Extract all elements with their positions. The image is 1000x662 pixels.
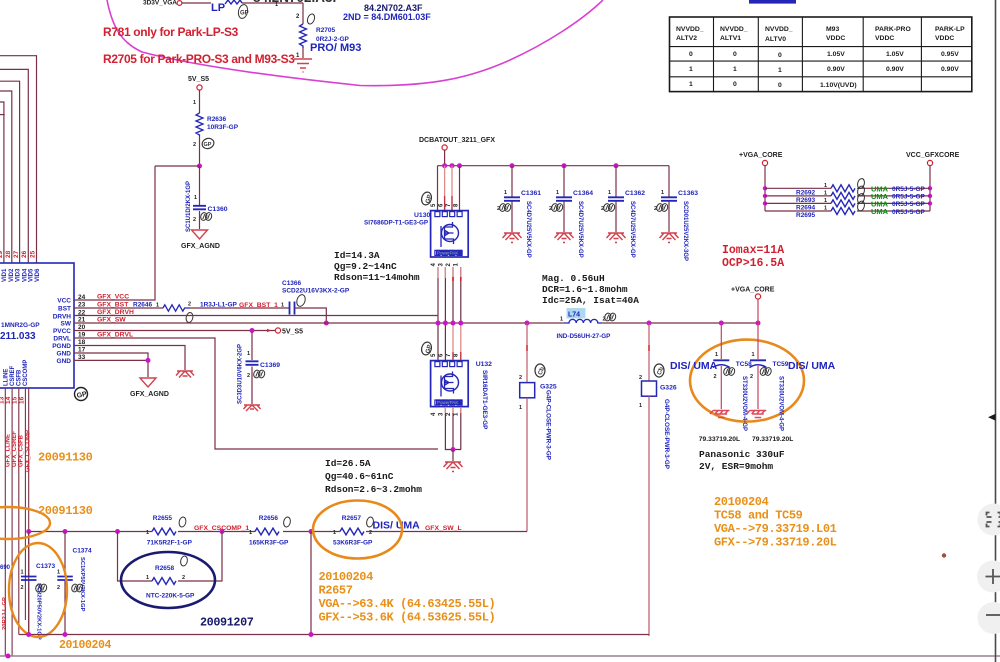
wire VID5: [0, 69, 28, 263]
svg-text:VID6: VID6: [35, 268, 41, 282]
svg-text:G326: G326: [660, 385, 677, 392]
svg-text:2: 2: [519, 375, 522, 381]
svg-text:1: 1: [194, 195, 197, 201]
svg-text:1: 1: [824, 183, 827, 189]
svg-text:SI7686DP-T1-GE3-GP: SI7686DP-T1-GE3-GP: [364, 220, 428, 227]
svg-text:C1366: C1366: [282, 280, 302, 287]
capacitor C1366: [190, 280, 350, 326]
svg-text:DIS/ UMA: DIS/ UMA: [373, 520, 421, 532]
svg-text:VID1: VID1: [2, 268, 8, 282]
svg-text:R2646: R2646: [133, 302, 153, 309]
svg-text:1: 1: [824, 191, 827, 197]
svg-text:2V, ESR=9mohm: 2V, ESR=9mohm: [699, 461, 773, 472]
svg-text:GFX_LLINE: GFX_LLINE: [6, 434, 12, 467]
svg-text:G4P-CLOSE-PWR-3-GP: G4P-CLOSE-PWR-3-GP: [663, 399, 670, 469]
svg-text:IND-D56UH-27-GP: IND-D56UH-27-GP: [557, 333, 611, 340]
svg-text:2: 2: [750, 374, 753, 380]
svg-text:PARK-LP: PARK-LP: [935, 26, 965, 33]
wires bus to U130 drain pins: [438, 166, 460, 210]
wire GFX_SW (pin21): [74, 317, 564, 324]
svg-text:1: 1: [824, 198, 827, 204]
svg-text:R2657: R2657: [319, 584, 353, 598]
svg-text:NVVDD_: NVVDD_: [720, 26, 748, 33]
capacitor TC58: [699, 323, 752, 443]
svg-text:2: 2: [57, 585, 60, 591]
svg-text:GFX_CSFB: GFX_CSFB: [19, 434, 25, 467]
svg-text:VDDC: VDDC: [935, 35, 954, 42]
wire VGA_CORE rail: [602, 321, 761, 326]
wire DCBAT bus: [438, 163, 670, 168]
svg-text:R781 only for Park-LP-S3: R781 only for Park-LP-S3: [103, 25, 239, 39]
svg-text:GFX_CSREF: GFX_CSREF: [12, 431, 18, 467]
note R781: [103, 25, 239, 39]
ground C1364: [555, 233, 574, 243]
svg-text:Rdson=11~14mohm: Rdson=11~14mohm: [334, 272, 420, 283]
svg-text:Qg=40.6~61nC: Qg=40.6~61nC: [325, 471, 394, 482]
note orange 20100204 TC: [714, 495, 837, 550]
svg-text:GP: GP: [240, 11, 249, 17]
svg-text:M93: M93: [826, 26, 839, 33]
svg-text:20091130: 20091130: [38, 504, 93, 518]
svg-text:2: 2: [21, 585, 24, 591]
mosfet U132: [420, 341, 492, 429]
svg-text:1: 1: [661, 190, 664, 196]
wire GFX_CSCOMP/GFX_SW_L line: [26, 529, 527, 534]
wire VID4: [0, 81, 20, 263]
svg-text:2: 2: [182, 575, 185, 581]
resistor R2655: [146, 515, 249, 547]
svg-text:211.033: 211.033: [0, 331, 36, 342]
svg-text:DIS/ UMA: DIS/ UMA: [788, 360, 836, 372]
IC U (PWM controller) box: [0, 263, 74, 388]
svg-text:C1360: C1360: [208, 206, 228, 213]
svg-text:GP: GP: [204, 142, 212, 148]
ground PGND: [176, 371, 194, 378]
svg-text:2: 2: [188, 302, 191, 308]
svg-text:GFX_AGND: GFX_AGND: [130, 391, 169, 398]
svg-text:1: 1: [57, 570, 60, 576]
capacitor C1374: [57, 532, 92, 635]
svg-text:C1369: C1369: [260, 362, 280, 369]
note orange R2657 block: [319, 570, 496, 625]
svg-text:LP: LP: [211, 2, 225, 14]
svg-text:BST: BST: [58, 306, 71, 313]
svg-text:79.33719.20L: 79.33719.20L: [699, 436, 740, 443]
svg-text:20100204: 20100204: [714, 495, 769, 509]
svg-text:U130: U130: [414, 212, 430, 219]
ground C1361: [503, 233, 522, 243]
small mark: [942, 553, 946, 557]
svg-text:Id=26.5A: Id=26.5A: [325, 458, 371, 469]
resistor R2646: [133, 302, 278, 324]
svg-text:Iomax=11A: Iomax=11A: [722, 244, 784, 257]
svg-text:NVVDD_: NVVDD_: [676, 26, 704, 33]
svg-text:2: 2: [639, 375, 642, 381]
svg-text:1: 1: [333, 530, 336, 536]
jumper G326: [639, 323, 677, 636]
svg-text:CSCOMP: CSCOMP: [23, 360, 29, 386]
svg-text:DIS/ UMA: DIS/ UMA: [670, 360, 718, 372]
svg-text:VID5: VID5: [29, 268, 35, 282]
svg-text:C1362: C1362: [625, 190, 645, 197]
resistor R2656: [249, 515, 291, 547]
note R2705: [103, 52, 295, 66]
ground GFX_AGND (C1360): [181, 230, 220, 250]
svg-text:VCC: VCC: [57, 298, 71, 305]
svg-text:NVVDD_: NVVDD_: [765, 26, 793, 33]
svg-text:1: 1: [689, 66, 693, 73]
svg-text:UMA: UMA: [871, 207, 889, 216]
note inductor spec: [542, 273, 639, 306]
svg-text:0.90V: 0.90V: [827, 66, 845, 73]
svg-text:DRVH: DRVH: [53, 314, 72, 321]
svg-text:1: 1: [146, 575, 149, 581]
resistor R2692: [765, 178, 930, 197]
svg-text:SIR16DAT1-GE3-GP: SIR16DAT1-GE3-GP: [481, 370, 488, 429]
svg-text:84.2N702.A3F: 84.2N702.A3F: [253, 0, 341, 5]
svg-text:L74: L74: [568, 312, 580, 319]
svg-text:1: 1: [156, 303, 159, 309]
svg-text:PowerPAK: PowerPAK: [437, 250, 458, 255]
svg-text:1: 1: [556, 190, 559, 196]
svg-text:20091207: 20091207: [200, 616, 254, 630]
wires U130 source/gate to SW: [438, 267, 461, 323]
svg-text:GFX_BST: GFX_BST: [97, 302, 129, 309]
ground C1363: [660, 233, 679, 243]
resistor R2705: [296, 3, 361, 59]
resistor R2695: [765, 200, 930, 219]
svg-text:Idc=25A, Isat=40A: Idc=25A, Isat=40A: [542, 295, 639, 306]
svg-text:R2656: R2656: [259, 515, 279, 522]
svg-text:DCR=1.6~1.8mohm: DCR=1.6~1.8mohm: [542, 284, 628, 295]
svg-text:26: 26: [21, 250, 28, 258]
svg-text:PGND: PGND: [52, 343, 71, 350]
blue bar top: [749, 0, 796, 4]
note 20091207: [200, 616, 254, 630]
svg-text:C1364: C1364: [573, 190, 593, 197]
svg-text:1: 1: [21, 570, 24, 576]
svg-text:1.10V(UVD): 1.10V(UVD): [820, 82, 857, 89]
highlight ellipse (selection): [107, 0, 603, 86]
resistor R2694: [765, 193, 930, 212]
svg-text:PVCC: PVCC: [53, 328, 71, 335]
page border line right: [988, 0, 996, 662]
svg-text:C1363: C1363: [678, 190, 698, 197]
svg-text:GFX_DRVH: GFX_DRVH: [97, 309, 134, 316]
svg-text:DCBATOUT_3211_GFX: DCBATOUT_3211_GFX: [419, 137, 495, 144]
wire to bottom: [310, 532, 312, 635]
svg-text:1: 1: [146, 530, 149, 536]
svg-text:GFX_DRVL: GFX_DRVL: [97, 332, 133, 339]
svg-text:2: 2: [193, 217, 196, 223]
svg-text:R2705: R2705: [316, 27, 336, 34]
capacitor C1369: [238, 332, 281, 404]
capacitor C1363: [654, 166, 698, 261]
svg-text:+VGA_CORE: +VGA_CORE: [739, 152, 783, 159]
svg-text:1.05V: 1.05V: [886, 51, 904, 58]
svg-text:20100204: 20100204: [319, 570, 374, 584]
svg-text:TC58 and TC59: TC58 and TC59: [714, 509, 803, 523]
note 20091130 (2): [38, 504, 93, 518]
svg-text:GFX_VCC: GFX_VCC: [97, 294, 129, 301]
svg-text:27: 27: [13, 250, 20, 258]
capacitor C1361: [497, 166, 541, 258]
svg-text:3D3V_VGA: 3D3V_VGA: [143, 0, 177, 7]
ferrite LP: [211, 0, 278, 19]
resistor R2693: [765, 185, 930, 204]
note 20100204 left: [59, 639, 112, 652]
inductor L74: [557, 308, 617, 340]
wire junction to VCC: [155, 164, 202, 169]
svg-text:Rdson=2.6~3.2mohm: Rdson=2.6~3.2mohm: [325, 484, 422, 495]
resistor R2658 (NTC): [118, 532, 223, 600]
svg-text:Qg=9.2~14nC: Qg=9.2~14nC: [334, 261, 397, 272]
svg-text:R2655: R2655: [153, 515, 173, 522]
svg-text:1: 1: [249, 530, 252, 536]
wire GFX_VCC (pin24): [74, 166, 155, 301]
wire VID3: [0, 91, 12, 263]
svg-text:2: 2: [714, 374, 717, 380]
svg-text:0.90V: 0.90V: [941, 66, 959, 73]
svg-text:SC4D7U25V5KX-GP: SC4D7U25V5KX-GP: [577, 201, 583, 258]
svg-text:0: 0: [689, 51, 693, 58]
svg-text:+VGA_CORE: +VGA_CORE: [731, 287, 775, 294]
svg-text:28: 28: [5, 250, 12, 258]
svg-text:C1374: C1374: [73, 548, 93, 555]
svg-text:VGA-->63.4K (64.63425.55L): VGA-->63.4K (64.63425.55L): [319, 597, 496, 611]
svg-text:TC59: TC59: [773, 361, 789, 368]
svg-text:CSREF: CSREF: [10, 365, 16, 386]
svg-text:1: 1: [752, 352, 755, 358]
wire PGND (pin18): [74, 346, 185, 371]
svg-text:R2657: R2657: [342, 515, 362, 522]
GP mark at IC corner: [75, 388, 88, 401]
svg-text:GND: GND: [57, 351, 72, 358]
svg-text:Mag. 0.56uH: Mag. 0.56uH: [542, 273, 605, 284]
svg-text:10R3F-GP: 10R3F-GP: [207, 124, 239, 131]
svg-text:GFX_SW_L: GFX_SW_L: [425, 525, 462, 532]
svg-text:SC820P50V2KX-1GP: SC820P50V2KX-1GP: [36, 583, 42, 640]
svg-text:0: 0: [733, 51, 737, 58]
svg-text:ALTV2: ALTV2: [676, 35, 697, 42]
svg-text:0: 0: [778, 82, 782, 89]
svg-text:20091130: 20091130: [38, 451, 93, 465]
svg-text:R2636: R2636: [207, 116, 227, 123]
svg-text:VCC_GFXCORE: VCC_GFXCORE: [906, 152, 960, 159]
svg-text:0: 0: [778, 52, 782, 59]
svg-text:OCP>16.5A: OCP>16.5A: [722, 257, 784, 270]
svg-text:SC1KP50V2KX-1GP: SC1KP50V2KX-1GP: [79, 557, 85, 612]
svg-text:SC3D3U10V6KX-2GP: SC3D3U10V6KX-2GP: [238, 344, 244, 404]
net labels bottom pins (rotated red): [6, 430, 32, 472]
wires IC bottom pins: [5, 388, 28, 656]
svg-text:ALTV1: ALTV1: [720, 35, 741, 42]
svg-text:NTC-220K-5-GP: NTC-220K-5-GP: [146, 593, 195, 600]
svg-text:GFX_AGND: GFX_AGND: [181, 243, 220, 250]
svg-text:Panasonic 330uF: Panasonic 330uF: [699, 449, 785, 460]
resistor R2657: [333, 515, 462, 547]
svg-text:VGA-->79.33719.L01: VGA-->79.33719.L01: [714, 522, 837, 536]
wire VID2: [0, 102, 4, 263]
button zoom out: [978, 602, 1000, 634]
svg-text:Id=14.3A: Id=14.3A: [334, 250, 380, 261]
voltage table: [670, 17, 972, 92]
note 20091130 (1): [38, 451, 93, 465]
svg-text:GFX-->53.6K (64.53625.55L): GFX-->53.6K (64.53625.55L): [319, 611, 496, 625]
highlight ellipse left small: [0, 507, 50, 539]
svg-text:1.05V: 1.05V: [827, 51, 845, 58]
svg-text:ST330U2VOM-4-GP: ST330U2VOM-4-GP: [778, 376, 784, 431]
part number texts: [343, 3, 431, 22]
svg-text:0.95V: 0.95V: [941, 51, 959, 58]
svg-text:0R5J-5-GP: 0R5J-5-GP: [892, 201, 926, 208]
svg-text:0: 0: [733, 81, 737, 88]
svg-text:VID3: VID3: [16, 268, 22, 282]
svg-text:GND: GND: [57, 358, 72, 365]
wire PVCC (pin20) to 5V_S5: [74, 328, 303, 336]
node DCBATOUT_3211_GFX: [419, 137, 495, 166]
capacitor C1373: [21, 532, 56, 640]
svg-text:SCD01U25V2KX-3GP: SCD01U25V2KX-3GP: [682, 201, 688, 261]
svg-text:20100204: 20100204: [59, 639, 112, 652]
svg-text:1: 1: [824, 206, 827, 212]
wire bottom bus: [19, 632, 649, 637]
svg-text:ST330U2VOM-4-GP: ST330U2VOM-4-GP: [741, 376, 747, 431]
svg-text:DRVL: DRVL: [53, 336, 71, 343]
ground TC58: [710, 411, 730, 418]
svg-text:0R5J-5-GP: 0R5J-5-GP: [892, 186, 926, 193]
svg-text:SC4D7U25V5KX-GP: SC4D7U25V5KX-GP: [629, 201, 635, 258]
svg-text:2ND = 84.DM601.03F: 2ND = 84.DM601.03F: [343, 12, 431, 22]
note Panasonic: [699, 449, 785, 472]
node 5V_S5 top: [188, 76, 209, 90]
wire GFX_DRVH (pin22): [74, 309, 438, 316]
svg-text:GFX-->79.33719.20L: GFX-->79.33719.20L: [714, 536, 837, 550]
svg-text:165KR3F-GP: 165KR3F-GP: [249, 540, 289, 547]
svg-text:1MNR2G-GP: 1MNR2G-GP: [1, 322, 40, 329]
svg-text:G4P-CLOSE-PWR-3-GP: G4P-CLOSE-PWR-3-GP: [545, 390, 552, 460]
svg-text:R2695: R2695: [796, 212, 816, 219]
svg-text:1: 1: [193, 100, 196, 106]
wire VID6: [0, 56, 37, 263]
svg-text:GFX_CSCOMP: GFX_CSCOMP: [26, 430, 32, 472]
wire: [182, 2, 303, 4]
svg-text:0R5J-5-GP: 0R5J-5-GP: [892, 194, 926, 201]
svg-text:1: 1: [608, 190, 611, 196]
pin numbers top: [0, 250, 37, 258]
svg-text:0.90V: 0.90V: [886, 66, 904, 73]
button fit-screen: [978, 504, 1000, 536]
svg-text:25: 25: [30, 250, 37, 258]
wire GFX_DRVL (pin19): [74, 332, 438, 450]
IC pin names VID (top, rotated): [2, 268, 41, 282]
svg-text:71K5R2F-1-GP: 71K5R2F-1-GP: [147, 540, 193, 547]
svg-text:R2705 for Park-PRO-S3 and M93-: R2705 for Park-PRO-S3 and M93-S3: [103, 52, 295, 66]
button zoom in: [977, 561, 1000, 593]
svg-text:PowerPAK: PowerPAK: [437, 400, 458, 405]
capacitor C1364: [549, 166, 593, 258]
capacitor TC59: [750, 323, 794, 443]
svg-text:53K6R3F-GP: 53K6R3F-GP: [333, 540, 373, 547]
wire GFX_BST (pin23): [74, 302, 163, 309]
svg-text:U132: U132: [476, 361, 492, 368]
wire GND (pin17+33): [74, 353, 151, 377]
capacitor C1362: [601, 166, 645, 258]
svg-text:SW: SW: [61, 321, 72, 328]
svg-text:ALTV0: ALTV0: [765, 36, 786, 43]
svg-text:16: 16: [19, 396, 26, 404]
svg-text:690: 690: [0, 565, 11, 571]
IC pin numbers bottom (rotated red): [0, 396, 26, 404]
svg-text:2: 2: [193, 142, 196, 148]
resistor R2636: [193, 90, 239, 166]
node 3D3V_VGA: [143, 0, 182, 7]
clipped text top: [253, 0, 341, 5]
wires SW to U132 drain pins: [438, 323, 461, 360]
svg-text:1: 1: [504, 190, 507, 196]
note U130 spec: [334, 250, 420, 283]
svg-text:GFX_SW: GFX_SW: [97, 317, 126, 324]
svg-text:PARK-PRO: PARK-PRO: [875, 26, 911, 33]
svg-text:C1373: C1373: [36, 563, 56, 570]
svg-text:VDDC: VDDC: [875, 35, 894, 42]
svg-text:2: 2: [247, 373, 250, 379]
svg-text:VDDC: VDDC: [826, 35, 845, 42]
svg-text:R2658: R2658: [155, 565, 175, 572]
highlight ellipse R2658: [121, 552, 215, 608]
wire VID1: [0, 114, 5, 116]
svg-text:GFX_CSCOMP_1: GFX_CSCOMP_1: [194, 525, 249, 532]
svg-text:SCD22U16V3KX-2-GP: SCD22U16V3KX-2-GP: [282, 288, 350, 295]
mosfet U130: [364, 191, 468, 267]
node +VGA_CORE (top right): [739, 152, 783, 211]
wires U132 source to ground: [445, 407, 461, 461]
note DIS/UMA left: [670, 360, 718, 372]
svg-text:1: 1: [778, 67, 782, 74]
ground below C1369: [244, 405, 261, 411]
junction dots SW node: [436, 321, 530, 326]
svg-text:1: 1: [519, 405, 522, 411]
note Iomax: [722, 244, 784, 270]
note U132 spec: [325, 458, 422, 495]
svg-text:20R2J-L-GP: 20R2J-L-GP: [2, 597, 8, 630]
svg-text:VID2: VID2: [9, 268, 15, 282]
ground C1362: [607, 233, 626, 243]
highlight ellipse TC58/TC59: [690, 340, 804, 422]
svg-text:1: 1: [733, 66, 737, 73]
IC pin names bottom (rotated): [4, 360, 30, 386]
svg-text:1: 1: [715, 352, 718, 358]
wire page bottom: [0, 654, 1000, 659]
node VCC_GFXCORE: [906, 152, 960, 211]
capacitor C1360: [186, 166, 228, 232]
svg-text:0R5J-5-GP: 0R5J-5-GP: [892, 209, 926, 216]
ground U132: [444, 462, 463, 472]
IC pin numbers right: [78, 294, 86, 361]
svg-text:SC1U1D/2KX-1GP: SC1U1D/2KX-1GP: [186, 181, 192, 232]
note DIS/UMA right: [788, 360, 836, 372]
svg-text:SC4D7U25V5KX-GP: SC4D7U25V5KX-GP: [525, 201, 531, 258]
svg-text:5V_S5: 5V_S5: [282, 329, 303, 336]
IC pin names right side: [52, 298, 72, 366]
svg-text:1: 1: [639, 403, 642, 409]
svg-text:29: 29: [0, 250, 4, 258]
svg-text:1: 1: [281, 303, 284, 309]
node +VGA_CORE (mid): [731, 287, 775, 324]
note 690: [0, 565, 11, 630]
svg-text:LLINE: LLINE: [4, 369, 10, 386]
ground TC59: [747, 411, 767, 418]
